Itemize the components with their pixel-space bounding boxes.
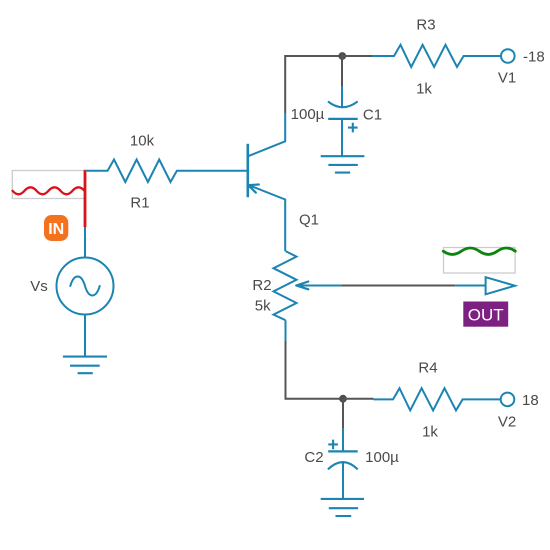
svg-text:R3: R3 [416,16,435,33]
label C1 [363,106,382,123]
wire source top lead [84,227,86,258]
svg-text:V1: V1 [498,69,516,86]
wire junction to R4 [343,398,374,400]
resistor R4 [374,388,501,410]
label R1 [130,194,149,211]
label R4 [418,359,437,376]
wire junction to C2 [342,399,344,429]
label 18 [522,392,539,409]
svg-text:IN: IN [48,221,64,238]
label 10k [130,132,155,149]
label 100u (C1) [291,106,325,123]
label C2 [304,449,323,466]
label 1k (R4) [422,423,438,440]
node top junction [338,52,346,60]
svg-text:R2: R2 [252,277,271,294]
ground (source) [63,357,107,374]
label V1 [498,69,516,86]
potentiometer R2 [274,251,297,320]
label 5k [255,297,271,314]
wire R2 bottom to bottom rail [286,320,344,399]
svg-text:100µ: 100µ [365,449,399,466]
ground (C1) [321,156,365,172]
svg-text:R1: R1 [130,194,149,211]
output arrow [486,277,515,294]
wire collector to top rail [285,56,342,113]
source Vs [57,258,114,315]
svg-text:-18: -18 [523,49,545,66]
svg-text:5k: 5k [255,297,271,314]
ground (C2) [321,499,364,516]
output scope box [444,248,516,274]
svg-text:OUT: OUT [468,305,504,324]
wiper arrow [296,282,342,290]
label Vs [30,278,48,295]
terminal V1 [501,49,515,63]
input scope box [12,171,84,199]
resistor R1 [85,160,247,183]
capacitor C2 [328,428,358,499]
input waveform (red sine) [13,187,85,194]
label Q1 [299,212,319,229]
svg-text:V2: V2 [498,413,516,430]
wire wiper to output [342,285,486,287]
label V2 [498,413,516,430]
label -18 [523,49,545,66]
capacitor C1 [328,86,358,156]
label R2 [252,277,271,294]
label 100u (C2) [365,449,399,466]
svg-text:18: 18 [522,392,539,409]
output waveform (green sine) [443,248,515,254]
svg-text:1k: 1k [422,423,438,440]
wire junction to C1 [341,56,343,86]
wire source bottom lead [84,315,86,357]
svg-text:Vs: Vs [30,278,48,295]
svg-text:C2: C2 [304,449,323,466]
wire (red) input node to source [84,170,87,227]
IN badge [44,215,68,241]
svg-text:Q1: Q1 [299,212,319,229]
transistor Q1 [248,113,285,251]
label 1k (R3) [416,80,432,97]
label R3 [416,16,435,33]
resistor R3 [372,45,501,67]
svg-text:C1: C1 [363,106,382,123]
svg-text:1k: 1k [416,80,432,97]
wire junction to R3 [342,55,372,57]
svg-text:100µ: 100µ [291,106,325,123]
OUT badge [463,302,508,327]
svg-text:10k: 10k [130,132,155,149]
node bottom junction [339,395,347,403]
svg-text:R4: R4 [418,359,437,376]
terminal V2 [501,393,515,407]
